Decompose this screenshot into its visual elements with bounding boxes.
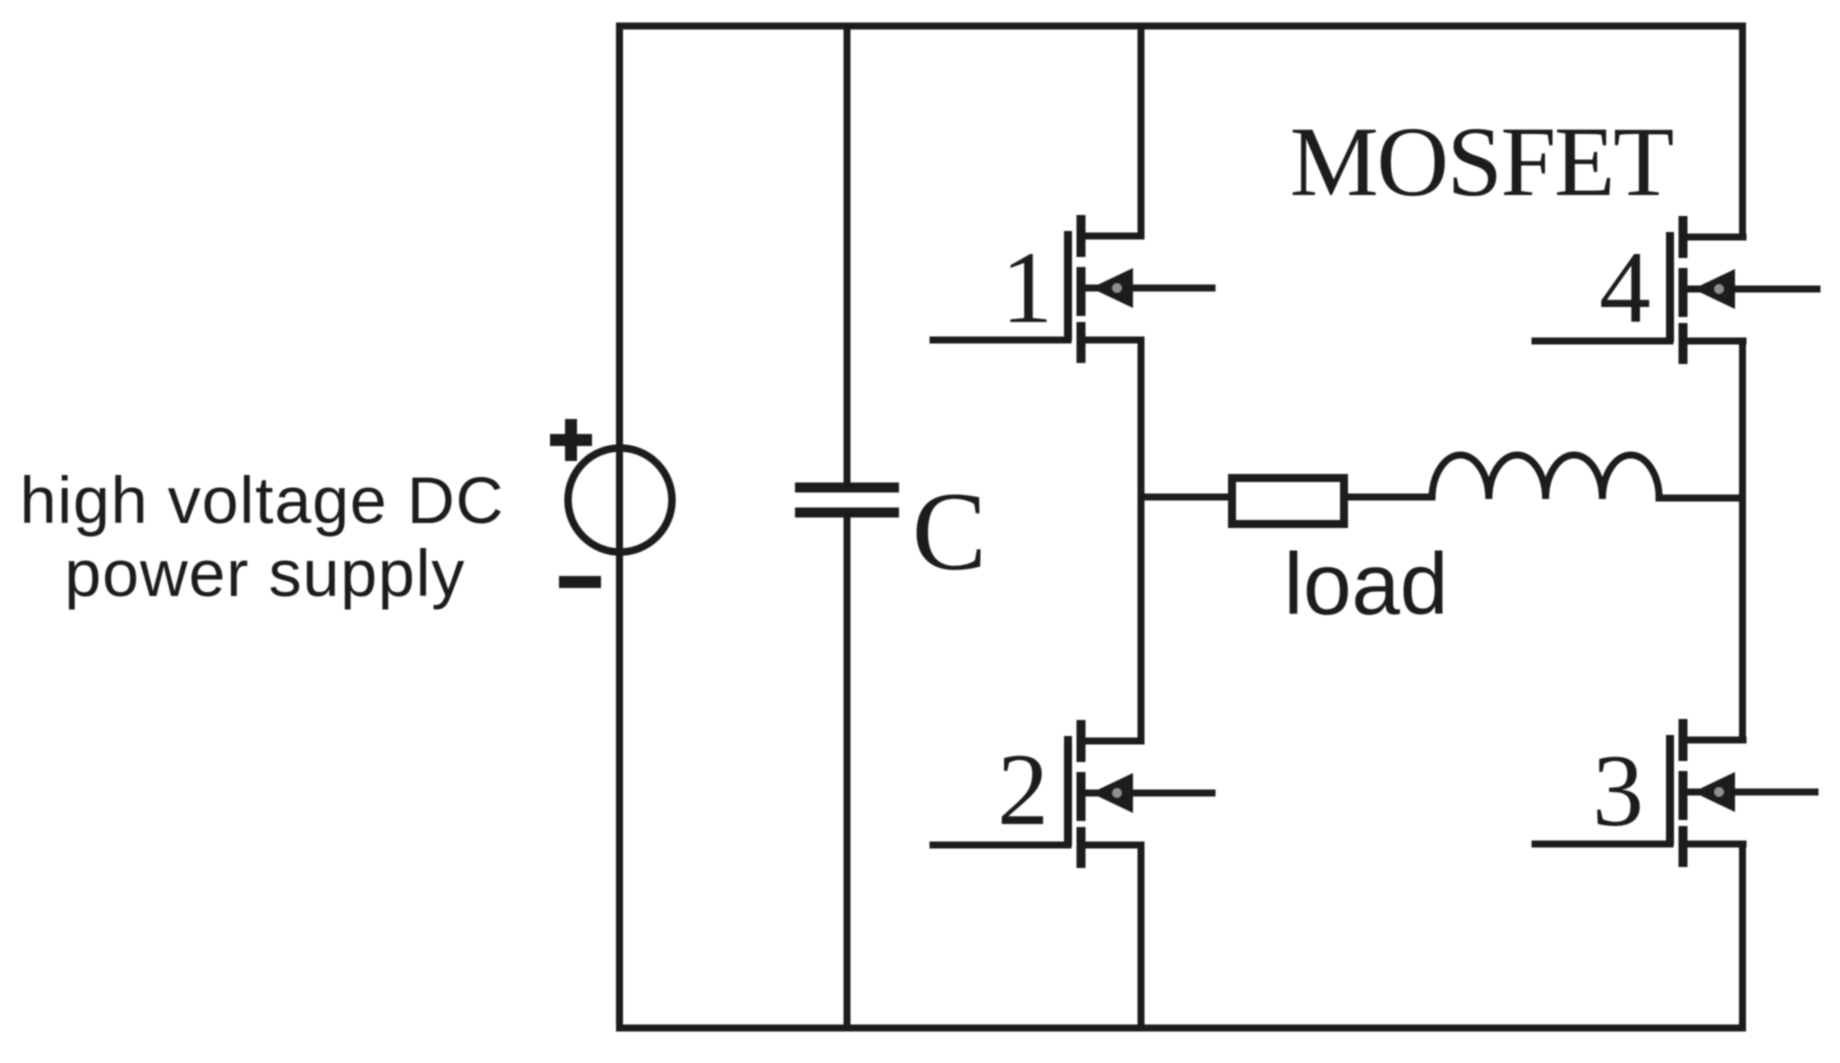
MOSFET Q2 — [933, 720, 1212, 868]
Q1 channel drain segment — [1077, 215, 1086, 257]
Q4 body arrow head — [1693, 269, 1735, 309]
minus sign of DC source — [559, 576, 601, 588]
svg-text:load: load — [1284, 536, 1448, 633]
MOSFET Q3 — [1535, 719, 1815, 867]
Q2 gate lead — [933, 842, 1068, 849]
Q4 gate bar — [1666, 232, 1674, 342]
Q3 channel body segment — [1679, 771, 1688, 820]
Q4 channel body segment — [1679, 268, 1688, 317]
svg-text:1: 1 — [1001, 231, 1053, 345]
Q2 channel source segment — [1077, 827, 1086, 868]
Q2 channel drain segment — [1077, 720, 1086, 762]
wire right rail middle (source 4 to drain 3, load node) — [1739, 341, 1746, 740]
wire load node to resistor — [1141, 494, 1231, 501]
Q2 gate bar — [1064, 736, 1072, 846]
Q4 source link — [1683, 338, 1743, 345]
plus sign of DC source — [550, 419, 592, 461]
Q4 body arrow tail — [1687, 286, 1817, 293]
Q3 channel drain segment — [1679, 719, 1688, 761]
svg-text:4: 4 — [1599, 231, 1651, 345]
Q2 body arrow head — [1091, 773, 1133, 813]
Q1 gate bar — [1064, 231, 1072, 341]
Q4 drain link — [1683, 234, 1743, 241]
Q3 gate bar — [1666, 735, 1674, 845]
Q1 channel body segment — [1077, 267, 1086, 316]
wire left bridge leg middle (source 1 to drain 2, load node) — [1138, 340, 1145, 741]
inductor (load L) — [1432, 455, 1659, 499]
Q1 body arrow tail — [1085, 285, 1212, 292]
Q2 channel body segment — [1077, 772, 1086, 821]
Q4 channel drain segment — [1679, 216, 1688, 258]
svg-text:power supply: power supply — [65, 536, 466, 610]
capacitor C plates — [795, 488, 899, 513]
wire right rail bottom (source of MOSFET 3) — [1739, 844, 1746, 1028]
Q3 body arrow head — [1693, 772, 1735, 812]
Q1 gate lead — [933, 337, 1068, 344]
wire left rail — [616, 26, 623, 1028]
Q1 body arrow head — [1091, 268, 1133, 308]
Q3 drain link — [1683, 737, 1743, 744]
Q4 channel source segment — [1679, 323, 1688, 364]
MOSFET Q1 — [933, 215, 1212, 363]
Q2 drain link — [1081, 738, 1141, 745]
Q3 source link — [1683, 841, 1743, 848]
DC source V1 circle — [568, 448, 672, 552]
wire left bridge leg top (drain of MOSFET 1) — [1138, 26, 1145, 236]
svg-text:3: 3 — [1592, 734, 1644, 848]
wire bottom rail — [620, 1025, 1743, 1032]
Q2 body arrow tail — [1085, 790, 1212, 797]
Q3 gate lead — [1535, 841, 1670, 848]
Q1 drain link — [1081, 233, 1141, 240]
wire top rail — [620, 23, 1743, 30]
Q1 channel source segment — [1077, 322, 1086, 363]
wire left bridge leg bottom (source of MOSFET 2) — [1138, 845, 1145, 1028]
svg-text:MOSFET: MOSFET — [1290, 106, 1673, 217]
svg-text:2: 2 — [997, 733, 1049, 847]
Q3 channel source segment — [1679, 826, 1688, 867]
wire capacitor branch bottom — [844, 511, 851, 1028]
Q3 body arrow tail — [1687, 789, 1815, 796]
wire inductor to right rail — [1659, 495, 1743, 502]
wire resistor to inductor — [1345, 494, 1432, 501]
svg-text:high voltage DC: high voltage DC — [20, 463, 505, 537]
wire capacitor branch top — [844, 26, 851, 489]
Q1 source link — [1081, 337, 1141, 344]
Q4 gate lead — [1535, 338, 1670, 345]
svg-text:C: C — [912, 470, 987, 594]
Q2 source link — [1081, 842, 1141, 849]
MOSFET Q4 — [1535, 216, 1817, 364]
resistor (load R) — [1232, 478, 1344, 524]
wire right rail top (drain of MOSFET 4) — [1739, 26, 1746, 237]
